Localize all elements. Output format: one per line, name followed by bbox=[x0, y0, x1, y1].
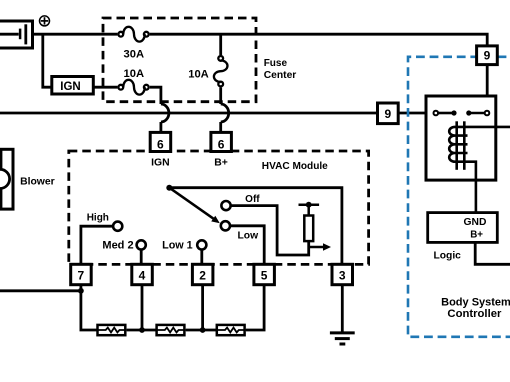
svg-text:6: 6 bbox=[218, 137, 225, 151]
svg-text:HVAC Module: HVAC Module bbox=[262, 161, 328, 172]
svg-text:Controller: Controller bbox=[447, 308, 502, 320]
svg-text:10A: 10A bbox=[124, 68, 145, 80]
svg-text:6: 6 bbox=[157, 137, 164, 151]
svg-text:7: 7 bbox=[78, 269, 85, 283]
svg-text:Center: Center bbox=[264, 70, 297, 81]
svg-text:Off: Off bbox=[245, 194, 260, 205]
svg-text:3: 3 bbox=[339, 269, 346, 283]
svg-text:9: 9 bbox=[484, 49, 491, 63]
svg-text:Logic: Logic bbox=[433, 251, 461, 262]
svg-text:Low: Low bbox=[238, 231, 260, 242]
svg-text:30A: 30A bbox=[124, 49, 145, 61]
svg-text:IGN: IGN bbox=[151, 158, 169, 169]
svg-text:10A: 10A bbox=[188, 69, 209, 81]
svg-text:B+: B+ bbox=[214, 158, 228, 169]
svg-text:Body System: Body System bbox=[441, 297, 510, 309]
svg-text:Med 2: Med 2 bbox=[102, 240, 133, 252]
svg-text:GND: GND bbox=[464, 217, 487, 228]
svg-text:5: 5 bbox=[261, 269, 268, 283]
svg-text:4: 4 bbox=[139, 269, 146, 283]
svg-text:9: 9 bbox=[385, 107, 392, 121]
svg-text:Fuse: Fuse bbox=[264, 58, 288, 69]
svg-text:B+: B+ bbox=[470, 230, 483, 241]
svg-text:IGN: IGN bbox=[60, 81, 80, 93]
svg-text:Low 1: Low 1 bbox=[162, 240, 193, 252]
svg-text:High: High bbox=[87, 212, 109, 223]
svg-text:Blower: Blower bbox=[20, 177, 55, 188]
svg-text:2: 2 bbox=[199, 269, 206, 283]
